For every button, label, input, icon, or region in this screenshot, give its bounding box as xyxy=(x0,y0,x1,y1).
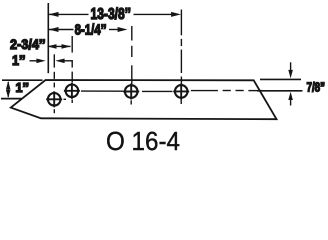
svg-text:1’’: 1’’ xyxy=(12,52,26,68)
7/8 up arrow xyxy=(288,92,293,100)
svg-text:1’’: 1’’ xyxy=(16,80,30,95)
svg-text:7/8”: 7/8” xyxy=(307,80,326,95)
hole 4 vertical centerline xyxy=(180,10,182,36)
7/8 dimension bottom extension line xyxy=(257,90,303,92)
svg-text:O 16-4: O 16-4 xyxy=(106,128,180,155)
hole 1 circle xyxy=(48,93,61,106)
blade horizontal centerline between hole2 and hole3 xyxy=(81,90,124,92)
7/8 dimension top extension line xyxy=(260,78,301,80)
hole 2 vertical centerline xyxy=(71,36,73,53)
hole 1 crosshair xyxy=(46,98,62,100)
svg-text:8-1/4’’: 8-1/4’’ xyxy=(75,21,107,38)
dimension 13-3/8 left arrowhead xyxy=(49,12,59,17)
dimension 13-3/8 line left segment xyxy=(49,13,89,15)
hole 2 crosshair xyxy=(64,90,80,92)
hole 3 circle xyxy=(125,85,138,98)
hole 4 crosshair xyxy=(173,90,189,92)
7/8 down arrow xyxy=(290,62,292,70)
dimension 8-1/4 line right segment xyxy=(109,29,118,31)
dimension 1in left-pointing arrow xyxy=(55,59,64,64)
hole 3 crosshair xyxy=(123,91,139,93)
vertical 1in double arrow xyxy=(7,82,9,97)
dimension 8-1/4 line left segment xyxy=(49,29,74,31)
hole 2 circle xyxy=(66,85,79,98)
blade horizontal centerline between hole3 and hole4 xyxy=(142,90,173,92)
blade outline xyxy=(11,80,277,119)
svg-text:2-3/4’’: 2-3/4’’ xyxy=(10,36,46,52)
vertical 1in dimension bottom extension line xyxy=(1,98,22,100)
hole 1 vertical centerline xyxy=(53,54,55,67)
hole 3 vertical centerline xyxy=(131,26,133,41)
dimension 8-1/4 left arrowhead xyxy=(49,27,59,32)
dimension 13-3/8 right arrowhead xyxy=(171,12,181,17)
hole 4 circle xyxy=(175,85,188,98)
dimension 8-1/4 right arrowhead xyxy=(118,27,128,32)
dimension 2-3/4 double arrow xyxy=(49,45,71,47)
vertical 1in dimension top extension line xyxy=(2,79,43,81)
dimension 1in right-pointing arrow xyxy=(30,60,38,62)
dimension 13-3/8 line right segment xyxy=(134,13,174,15)
blade horizontal centerline right of hole4 xyxy=(191,90,218,92)
hole 1 horizontal centerline dash xyxy=(64,98,67,100)
left reference extension line xyxy=(47,3,49,73)
